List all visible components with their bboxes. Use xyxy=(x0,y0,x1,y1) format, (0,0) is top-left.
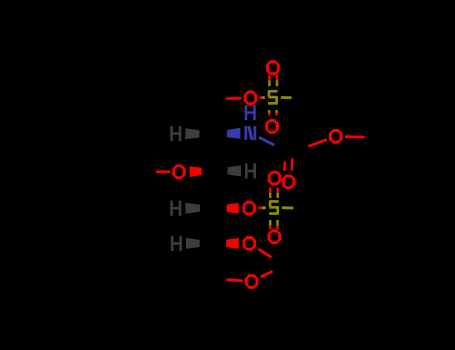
S1=O top double bond xyxy=(269,75,277,86)
atom H on C2 xyxy=(170,126,181,141)
wire S1-CH3 xyxy=(281,96,292,99)
atom O, S2=O bottom xyxy=(268,229,282,244)
atom O3 (benzyl ether O) xyxy=(172,164,186,179)
atom O ester xyxy=(329,129,343,144)
wire N-C8 (N to carbamate carbonyl C) xyxy=(259,137,275,145)
wire O3-CH2 (benzyl) xyxy=(156,170,170,173)
atom H on C3 xyxy=(245,163,256,178)
wedge C3-O3 xyxy=(189,166,201,177)
wedge C2-H2 xyxy=(185,128,199,139)
atom O1 (mesylate ester O) xyxy=(244,91,258,106)
wedge C5-H5 xyxy=(186,238,200,249)
C8=O8 carbonyl double bond xyxy=(285,158,293,171)
wire O6-C7 xyxy=(261,271,273,277)
wedge C4-O4 xyxy=(227,203,239,214)
wedge C5-O5 xyxy=(226,238,239,249)
wire O4-S2 xyxy=(258,206,266,209)
wire O6-C6 xyxy=(226,280,242,281)
atom O, S2=O top xyxy=(268,171,282,186)
atom O carbonyl xyxy=(282,175,296,190)
atom H on N xyxy=(245,105,256,120)
atom O5 (acetal O) xyxy=(243,236,257,251)
atom O4 (mesylate ester O) xyxy=(242,201,256,216)
atom O, S1=O top xyxy=(266,60,280,75)
S2=O bottom double bond xyxy=(270,220,277,229)
wire C8-O9 (carbonyl C to ester O) xyxy=(308,140,326,147)
wedge C4-H4 xyxy=(185,203,200,214)
wire C1-O1 (C1 to mesylate ester O) xyxy=(226,97,241,100)
wedge C3-H3 xyxy=(228,165,242,176)
atom O, S1=O bottom xyxy=(265,119,279,134)
wire O9-CH3 xyxy=(345,135,365,138)
wire O1-S1 xyxy=(260,96,265,99)
atom N xyxy=(245,126,257,140)
atom H on C5 xyxy=(171,236,182,251)
wedge C2-N xyxy=(227,128,241,139)
wire S2-CH3 xyxy=(282,206,294,209)
atom S2 xyxy=(269,200,279,215)
atom S1 xyxy=(268,90,278,105)
S2=O top double bond xyxy=(270,187,278,198)
S1=O bottom double bond xyxy=(269,110,276,115)
atom O6 (acetal O) xyxy=(245,274,259,289)
atom H on C4 xyxy=(170,201,181,216)
wire O5-C7 (acetal C) xyxy=(258,249,271,257)
